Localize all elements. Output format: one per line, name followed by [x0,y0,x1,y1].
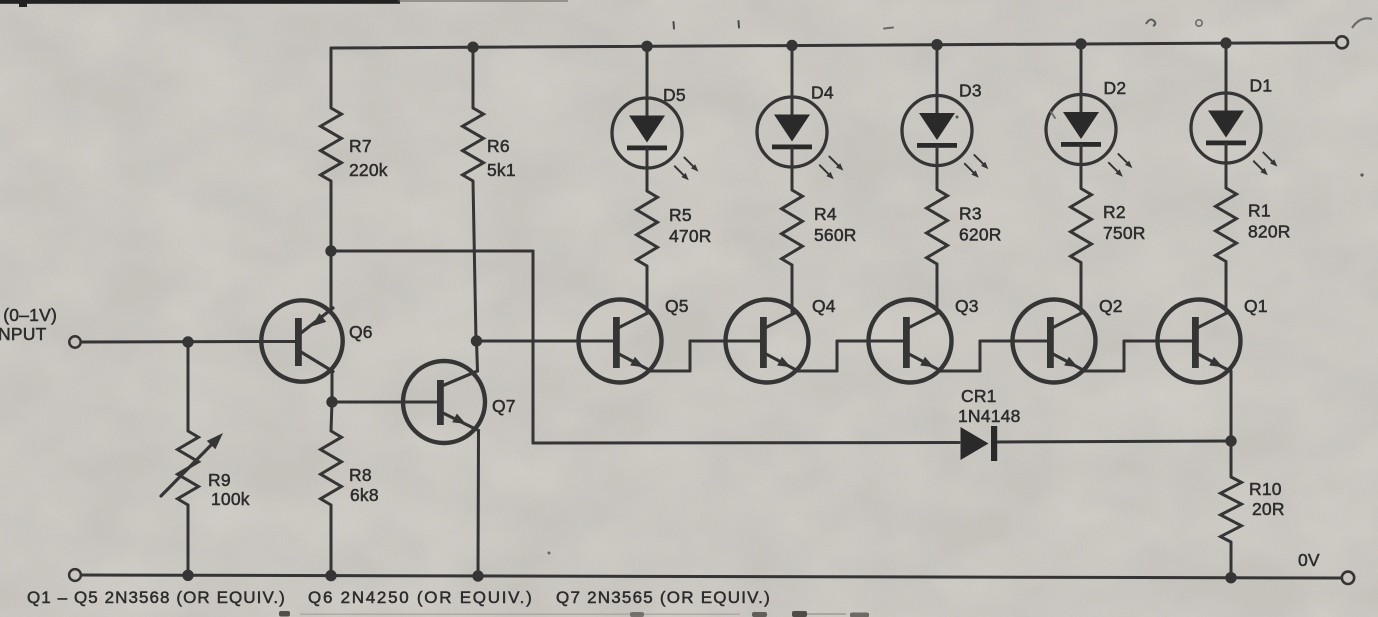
svg-text:R6: R6 [487,136,510,156]
svg-text:R3: R3 [959,204,982,224]
svg-text:Q7: Q7 [492,396,516,416]
svg-text:R7: R7 [349,136,372,156]
svg-text:R1: R1 [1248,201,1271,221]
svg-text:470R: 470R [669,226,712,246]
svg-text:R2: R2 [1103,202,1126,222]
svg-text:D4: D4 [811,83,834,103]
svg-text:220k: 220k [349,160,388,180]
svg-text:Q1: Q1 [1244,296,1268,316]
svg-text:20R: 20R [1252,499,1285,519]
svg-text:R5: R5 [669,205,692,225]
svg-text:R9: R9 [208,470,231,490]
svg-text:Q6: Q6 [349,322,373,342]
svg-text:100k: 100k [211,489,250,509]
svg-text:Q6 2N4250 (OR EQUIV.): Q6 2N4250 (OR EQUIV.) [308,588,532,607]
svg-text:5k1: 5k1 [487,160,516,180]
svg-text:INPUT: INPUT [0,324,47,344]
svg-text:R10: R10 [1249,479,1282,499]
svg-text:Q4: Q4 [812,296,836,316]
svg-text:D1: D1 [1250,76,1273,96]
svg-text:R4: R4 [814,204,837,224]
svg-text:0V: 0V [1298,550,1320,570]
svg-text:Q1 – Q5 2N3568 (OR EQUIV.): Q1 – Q5 2N3568 (OR EQUIV.) [27,588,285,607]
svg-text:D3: D3 [959,81,982,101]
svg-text:D5: D5 [663,85,686,105]
svg-text:Q3: Q3 [955,296,979,316]
svg-text:6k8: 6k8 [350,485,379,505]
svg-text:CR1: CR1 [961,386,997,406]
svg-text:D2: D2 [1104,78,1127,98]
svg-text:820R: 820R [1248,222,1291,242]
svg-text:Q7 2N3565 (OR EQUIV.): Q7 2N3565 (OR EQUIV.) [556,588,770,607]
svg-text:1N4148: 1N4148 [958,406,1021,426]
svg-text:750R: 750R [1103,223,1146,243]
svg-text:620R: 620R [959,225,1002,245]
svg-text:R8: R8 [349,465,372,485]
svg-text:Q5: Q5 [665,296,689,316]
svg-text:(0–1V): (0–1V) [3,305,57,325]
svg-text:Q2: Q2 [1099,296,1123,316]
svg-text:560R: 560R [814,225,857,245]
